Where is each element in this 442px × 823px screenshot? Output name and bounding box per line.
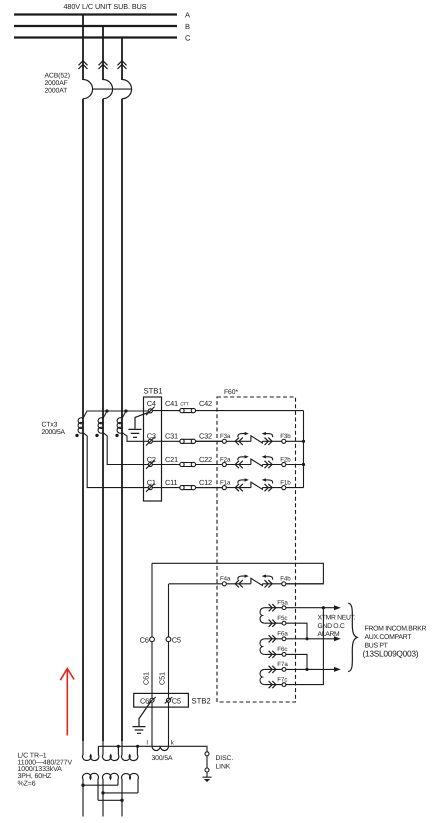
wire row C4 to F60 box east bus [152, 410, 303, 412]
wire phase B main run [102, 99, 104, 742]
wire F6c to F7a [286, 654, 307, 669]
wire F7a out [286, 668, 334, 670]
svg-text:C41: C41 [165, 399, 178, 408]
svg-text:C6: C6 [140, 635, 149, 644]
svg-text:3PH, 60HZ: 3PH, 60HZ [17, 773, 52, 780]
svg-text:F5a: F5a [277, 599, 288, 606]
wire CT C secondary bottom to C3 [122, 433, 148, 442]
junction CT common C [124, 409, 127, 412]
svg-text:F2a: F2a [220, 456, 231, 463]
drawout loop pair [260, 639, 264, 655]
svg-text:AUX.COMPART: AUX.COMPART [364, 634, 412, 641]
svg-text:A: A [185, 10, 190, 19]
svg-text:C11: C11 [165, 478, 177, 487]
terminal C2 [146, 455, 156, 469]
arrow out F5a [334, 605, 341, 610]
junction delta C [120, 799, 123, 802]
svg-text:F6c: F6c [277, 646, 287, 653]
svg-text:F5c: F5c [277, 615, 287, 622]
svg-text:C51: C51 [157, 672, 166, 685]
test link row C3 [180, 439, 196, 443]
svg-text:C32: C32 [199, 432, 212, 441]
transformer TR-1 wye winding B [102, 741, 118, 760]
breaker ACB(52) pole C arc [122, 79, 132, 98]
wire phase B drop from bus B [102, 26, 104, 80]
drawout loop pair [260, 608, 264, 624]
transformer neutral line [98, 746, 207, 752]
terminal block STB2 [134, 693, 189, 707]
svg-text:480V L/C UNIT SUB. BUS: 480V L/C UNIT SUB. BUS [63, 2, 146, 11]
CT phase C winding [117, 418, 122, 433]
wire CT A secondary bottom to C1 [83, 433, 148, 488]
contact row F1a/F1b [195, 478, 303, 491]
svg-text:F4b: F4b [280, 576, 291, 583]
svg-text:%Z=6: %Z=6 [17, 780, 35, 787]
CT polarity dot phase B [95, 434, 98, 437]
transformer TR-1 delta winding A-B [82, 773, 98, 816]
svg-text:DISC.: DISC. [215, 755, 233, 762]
svg-text:CTx3: CTx3 [41, 421, 57, 428]
wire C5 riser [167, 584, 169, 746]
svg-text:STB2: STB2 [191, 696, 210, 705]
power flow red arrow [60, 668, 74, 735]
drawout loop pair [260, 669, 264, 684]
terminal F6c [264, 646, 287, 658]
svg-text:C6: C6 [140, 696, 149, 705]
svg-text:C31: C31 [165, 432, 178, 441]
ground at STB2 C6 [132, 702, 150, 733]
svg-text:C1: C1 [147, 478, 156, 487]
svg-text:F4a: F4a [220, 576, 231, 583]
svg-text:C5: C5 [172, 635, 181, 644]
ground at C4 common [128, 413, 148, 438]
test link row C2 [180, 462, 196, 466]
svg-text:F1b: F1b [280, 480, 291, 487]
wire row C2 [152, 463, 222, 465]
delta link W1a-W2b [83, 784, 118, 786]
junction F6a [305, 637, 308, 640]
wire row C1 [152, 487, 222, 489]
test link row C4 [180, 408, 196, 412]
terminal C5 (mid) [166, 637, 171, 642]
transformer TR-1 delta winding C-A [122, 773, 139, 816]
drawout chevrons phase B [99, 61, 108, 69]
transformer TR-1 delta winding B-C [102, 773, 118, 816]
svg-text:F6a: F6a [277, 631, 288, 638]
junction F5a [322, 606, 325, 609]
svg-text:F7a: F7a [277, 661, 288, 668]
junction neutral W3 [136, 745, 139, 748]
junction F3b bus [302, 440, 305, 443]
terminal F7a [264, 661, 288, 673]
svg-text:STB1: STB1 [144, 386, 163, 395]
svg-text:C3: C3 [147, 432, 156, 441]
svg-text:2000/5A: 2000/5A [41, 429, 65, 436]
CT 300/5A on neutral [152, 746, 169, 750]
svg-text:C61: C61 [141, 672, 150, 685]
contact row F4a/F4b [169, 574, 323, 587]
wire F6a out [286, 638, 334, 640]
breaker tie bar [92, 88, 131, 90]
disconnect link [205, 752, 209, 756]
wire CT secondary common (tops) to C4 [83, 411, 148, 418]
junction CT common B [105, 409, 108, 412]
junction neutral W2 [117, 745, 120, 748]
svg-text:ALARM: ALARM [317, 631, 340, 638]
wire F5a out [286, 607, 334, 609]
wire phase A main run [82, 99, 84, 742]
svg-text:C21: C21 [165, 455, 178, 464]
svg-text:B: B [185, 22, 190, 31]
svg-text:F1a: F1a [220, 480, 231, 487]
drawout chevrons phase A [79, 61, 88, 69]
svg-text:CTT: CTT [180, 401, 189, 406]
junction F2b bus [302, 463, 305, 466]
bus C [14, 36, 177, 38]
wire row C3 [152, 440, 222, 442]
wire phase C drop from bus C [121, 37, 123, 79]
svg-text:F2b: F2b [280, 456, 291, 463]
transformer TR-1 wye winding A [82, 741, 98, 760]
svg-text:LINK: LINK [215, 764, 230, 771]
breaker ACB(52) pole A arc [83, 79, 93, 98]
svg-text:GND O.C: GND O.C [317, 623, 344, 630]
svg-text:2000AT: 2000AT [45, 87, 68, 94]
wire F5c to F6a [286, 623, 307, 639]
bus A [14, 13, 177, 15]
junction delta B [101, 791, 104, 794]
delta link W1b-W3a [98, 799, 122, 801]
wire CT B secondary bottom to C2 [103, 433, 148, 465]
junction F7a [305, 668, 308, 671]
breaker ACB(52) pole B arc [103, 79, 113, 98]
terminal C4 [146, 399, 156, 415]
svg-text:C12: C12 [199, 478, 212, 487]
bus B [14, 25, 177, 27]
svg-text:FROM INCOM.BRKR: FROM INCOM.BRKR [364, 625, 426, 632]
drawout chevrons phase C [118, 61, 127, 69]
arrow out F7a [334, 667, 341, 672]
delta link W2a-W3b [103, 792, 138, 794]
contact row F2a/F2b [195, 455, 303, 468]
svg-text:300/5A: 300/5A [151, 755, 173, 762]
svg-text:F3a: F3a [220, 433, 231, 440]
transformer TR-1 wye winding C [121, 741, 137, 760]
terminal F7c [264, 676, 287, 688]
svg-text:C42: C42 [199, 399, 212, 408]
terminal block STB1 [143, 397, 161, 501]
terminal C1 [146, 478, 156, 492]
contact row F3a/F3b [195, 432, 303, 445]
F60 east bus vertical [302, 411, 304, 488]
terminal C6 (STB2) [140, 696, 156, 705]
svg-text:F3b: F3b [280, 433, 291, 440]
svg-text:F7c: F7c [277, 676, 287, 683]
relay F60 dashed enclosure [217, 397, 296, 702]
terminal F6a [264, 631, 288, 643]
svg-text:C4: C4 [147, 399, 156, 408]
arrow out F6a [334, 636, 341, 641]
CT polarity dot phase A [75, 434, 78, 437]
terminal C6 (mid) [150, 637, 155, 642]
svg-text:2000AF: 2000AF [45, 80, 68, 87]
svg-text:l: l [146, 739, 147, 746]
junction delta A [81, 783, 84, 786]
svg-text:XTMR NEUT.: XTMR NEUT. [317, 615, 355, 622]
wire C6 riser [151, 563, 153, 746]
test link row C1 [180, 485, 196, 489]
terminal C3 [146, 432, 156, 446]
svg-text:F60*: F60* [224, 389, 238, 396]
svg-text:C22: C22 [199, 455, 212, 464]
svg-text:1000/1333kVA: 1000/1333kVA [17, 765, 62, 773]
terminal F5c [264, 615, 287, 627]
svg-text:ACB(52): ACB(52) [45, 72, 70, 79]
svg-text:(13SL009Q003): (13SL009Q003) [362, 649, 418, 659]
wire phase A drop from bus A [82, 14, 84, 80]
terminal C5 (STB2) [165, 696, 181, 705]
svg-text:C: C [185, 33, 191, 42]
curly brace [348, 603, 357, 671]
svg-text:C2: C2 [147, 455, 156, 464]
svg-text:C5: C5 [172, 696, 181, 705]
wire phase C main run [121, 99, 123, 742]
CT phase B winding [98, 418, 103, 433]
CT phase A winding [78, 418, 83, 433]
terminal F5a [264, 599, 288, 611]
wire F7c to F5a [286, 608, 323, 685]
CT polarity dot phase C [115, 434, 118, 437]
wire C6 to F4b loop [152, 563, 323, 584]
